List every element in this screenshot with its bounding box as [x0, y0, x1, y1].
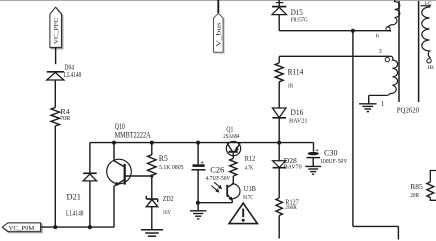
svg-text:BAV70: BAV70 [284, 164, 302, 171]
svg-text:4.7UF-50V: 4.7UF-50V [206, 175, 231, 182]
svg-text:D15: D15 [291, 8, 303, 17]
svg-text:3: 3 [379, 48, 382, 55]
svg-text:LL4148: LL4148 [66, 210, 84, 217]
svg-text:817C: 817C [243, 194, 253, 201]
svg-text:70R: 70R [60, 115, 71, 122]
svg-text:6: 6 [376, 33, 379, 40]
svg-text:20R: 20R [410, 192, 419, 199]
svg-text:200R: 200R [285, 205, 297, 211]
svg-text:VC_P9M: VC_P9M [9, 225, 35, 232]
svg-text:C30: C30 [324, 148, 338, 157]
svg-text:D16: D16 [291, 108, 304, 117]
svg-text:Q1: Q1 [226, 125, 233, 133]
svg-text:V_bus: V_bus [217, 21, 223, 47]
svg-text:BAV21: BAV21 [289, 117, 308, 124]
svg-text:FR157G: FR157G [291, 17, 308, 24]
svg-text:R85: R85 [410, 182, 423, 191]
svg-text:ZD2: ZD2 [163, 194, 174, 203]
svg-text:PQ2620: PQ2620 [397, 107, 420, 115]
svg-text:1: 1 [381, 101, 384, 108]
svg-text:D21: D21 [67, 193, 82, 202]
svg-text:1B: 1B [427, 65, 434, 71]
svg-text:R12: R12 [245, 154, 256, 163]
svg-text:MMBT2222A: MMBT2222A [115, 131, 151, 140]
svg-text:VC_PFC: VC_PFC [54, 18, 60, 45]
svg-text:2SA684: 2SA684 [223, 133, 240, 140]
svg-text:R114: R114 [288, 67, 304, 76]
svg-text:16V: 16V [163, 209, 171, 216]
svg-text:LL4148: LL4148 [64, 72, 82, 79]
svg-text:100UF-50V: 100UF-50V [320, 158, 348, 165]
svg-text:C26: C26 [210, 165, 224, 174]
svg-text:4.7K: 4.7K [245, 165, 254, 172]
svg-text:5.1K 0805: 5.1K 0805 [159, 164, 184, 171]
svg-text:R5: R5 [159, 154, 168, 163]
svg-text:D04: D04 [65, 65, 75, 72]
svg-text:U1B: U1B [244, 184, 256, 193]
svg-text:1R: 1R [288, 82, 294, 89]
